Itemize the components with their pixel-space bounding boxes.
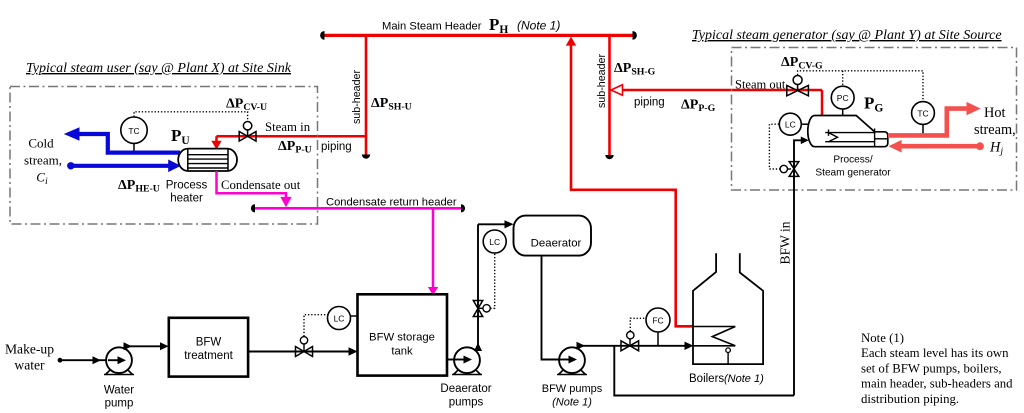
- instrument PC: [831, 86, 854, 118]
- wire: condensate out (magenta): [217, 171, 292, 207]
- svg-text:stream,: stream,: [24, 153, 62, 168]
- condensate return header (magenta): [251, 204, 465, 212]
- process heater (shell and tube): [178, 149, 237, 171]
- svg-text:LC: LC: [785, 120, 796, 130]
- svg-text:(Note 1): (Note 1): [724, 373, 764, 385]
- svg-text:main header, sub-headers and: main header, sub-headers and: [861, 377, 1013, 391]
- svg-text:water: water: [14, 358, 45, 373]
- svg-text:piping: piping: [321, 141, 352, 153]
- svg-text:treatment: treatment: [184, 350, 233, 362]
- svg-text:stream,: stream,: [974, 122, 1016, 138]
- dotted signal FC valve: [630, 318, 646, 331]
- instrument LC (generator): [779, 113, 809, 135]
- wire: red drop into heater with arrow: [211, 136, 221, 149]
- valve LC (tank level control): [296, 337, 313, 357]
- wire: boiler steam riser to main header (red): [566, 37, 693, 327]
- box: typical steam user: [10, 87, 318, 225]
- svg-text:BFW storage: BFW storage: [369, 332, 435, 344]
- BFW pump: [557, 347, 587, 374]
- main steam header: [320, 31, 637, 40]
- svg-text:Steam out: Steam out: [735, 78, 786, 92]
- svg-text:pumps: pumps: [449, 397, 484, 409]
- wire: steam-in piping (red): [217, 135, 367, 138]
- dotted signal CV-G to PC and TC: [798, 71, 923, 101]
- wire: piping G (red) with open arrow into sub-header: [611, 85, 822, 95]
- svg-text:Steam generator: Steam generator: [815, 168, 891, 179]
- svg-text:distribution piping.: distribution piping.: [861, 392, 959, 406]
- svg-text:PC: PC: [837, 93, 849, 103]
- BFW storage tank box: [358, 294, 448, 375]
- wire: BFW pump to boiler: [577, 342, 694, 350]
- svg-text:BFW pumps: BFW pumps: [542, 383, 603, 395]
- svg-text:FC: FC: [652, 316, 663, 326]
- svg-text:Cold: Cold: [28, 136, 54, 151]
- svg-text:BFW: BFW: [196, 337, 222, 349]
- wire: water pump to BFW treatment: [124, 342, 169, 350]
- svg-text:set of BFW pumps, boilers,: set of BFW pumps, boilers,: [861, 361, 1002, 375]
- steam generator vessel: [808, 116, 888, 147]
- BFW treatment box: [169, 318, 248, 377]
- svg-text:TC: TC: [917, 109, 928, 119]
- wire: condensate drop to BFW tank: [428, 208, 438, 295]
- svg-text:Process: Process: [166, 180, 208, 192]
- water pump: [104, 347, 134, 374]
- instrument TC (user): [121, 117, 147, 153]
- wire: deaerator to BFW pump: [542, 256, 563, 359]
- wire: sub-header U (red vertical): [362, 34, 370, 159]
- svg-text:Typical steam user (say @ Plan: Typical steam user (say @ Plant X) at Si…: [26, 61, 292, 76]
- instrument FC: [646, 308, 670, 346]
- svg-text:Typical steam generator (say @: Typical steam generator (say @ Plant Y) …: [692, 28, 1002, 43]
- dotted signal valve to LC (deaerator): [490, 254, 494, 309]
- wire: treatment to storage tank: [248, 347, 357, 355]
- svg-text:sub-header: sub-header: [596, 54, 608, 109]
- svg-text:Deaerator: Deaerator: [440, 383, 491, 395]
- svg-text:Steam in: Steam in: [265, 120, 311, 134]
- valve on deaerator feed (vertical): [473, 301, 490, 317]
- svg-text:heater: heater: [170, 193, 203, 205]
- valve FC (boiler feed): [621, 332, 639, 351]
- wire: deaerator pump up to deaerator: [474, 220, 514, 351]
- dotted signal LC to BFW valve: [769, 124, 780, 169]
- svg-text:LC: LC: [489, 237, 500, 247]
- dotted signal valve to LC: [304, 315, 328, 337]
- svg-text:Each steam level has its own: Each steam level has its own: [861, 346, 1009, 360]
- boiler: [693, 253, 763, 364]
- valve CV-G (steam out control valve): [787, 76, 809, 96]
- valve on BFW in (vertical): [780, 162, 799, 177]
- deaerator pump: [452, 347, 482, 374]
- instrument TC (generator): [912, 102, 935, 135]
- wire: red from valve down to vessel: [821, 90, 824, 116]
- svg-text:Boilers: Boilers: [689, 373, 724, 385]
- instrument LC (tank): [328, 307, 358, 330]
- wire: BFW in to generator (black) with arrow: [794, 137, 809, 396]
- wire: make-up water line: [58, 356, 108, 364]
- wire: cold stream in (blue): [67, 160, 181, 173]
- svg-text:Make-up: Make-up: [5, 342, 54, 357]
- dotted signal TC to valve: [134, 112, 248, 121]
- svg-text:sub-header: sub-header: [351, 70, 363, 125]
- svg-text:Condensate out: Condensate out: [221, 178, 301, 192]
- svg-text:Note (1): Note (1): [861, 331, 904, 345]
- valve CV-U (steam in control valve): [239, 122, 256, 142]
- svg-text:Process/: Process/: [833, 155, 872, 166]
- svg-text:LC: LC: [334, 314, 345, 324]
- svg-text:Main Steam Header: Main Steam Header: [382, 21, 482, 33]
- wire: cold stream out (blue): [64, 127, 180, 152]
- svg-text:Deaerator: Deaerator: [531, 238, 582, 250]
- svg-text:TC: TC: [128, 126, 139, 136]
- wire: sub-header G (red vertical): [605, 34, 613, 159]
- svg-text:Condensate return header: Condensate return header: [326, 197, 457, 209]
- wire: hot stream return (salmon): [889, 140, 984, 153]
- svg-text:Hot: Hot: [984, 105, 1005, 121]
- wire: BFW branch down and right to generator: [614, 346, 794, 396]
- svg-text:pump: pump: [105, 398, 134, 410]
- svg-text:Water: Water: [104, 385, 134, 397]
- svg-text:(Note 1): (Note 1): [517, 19, 560, 33]
- svg-text:BFW in: BFW in: [778, 221, 793, 264]
- deaerator vessel: [514, 216, 592, 256]
- box: typical steam generator: [732, 48, 1017, 191]
- svg-text:piping: piping: [634, 97, 665, 109]
- svg-text:tank: tank: [391, 346, 413, 358]
- instrument LC (deaerator): [483, 230, 506, 253]
- wire: hot stream out (salmon): [888, 102, 981, 135]
- wire: tank to deaerator pump: [447, 359, 458, 361]
- svg-text:(Note 1): (Note 1): [552, 397, 592, 409]
